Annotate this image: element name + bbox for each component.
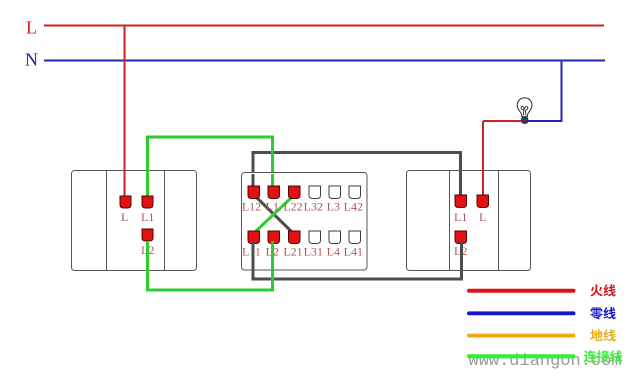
svg-text:L22: L22 (283, 200, 302, 214)
svg-text:L1: L1 (141, 210, 154, 224)
wire green: left L1 up and over to middle L1 (148, 137, 273, 198)
wire gray stub from middle L11 down (252, 238, 255, 270)
terminal L (right box) (477, 195, 489, 208)
svg-text:L12: L12 (242, 200, 261, 214)
terminal L (left box) (120, 196, 131, 208)
terminal L31 (middle box) (309, 231, 321, 244)
legend label lianjiexian (connecting wire) (584, 350, 623, 362)
terminal L2 (right box) (455, 231, 467, 244)
terminal L3 (middle box) (329, 186, 341, 199)
middle switch box SW2 (242, 173, 368, 271)
wire L bus (44, 25, 604, 27)
wire blue from lamp base to N drop (528, 61, 562, 122)
legend line connecting wire (467, 354, 576, 358)
lamp EL (517, 98, 532, 123)
legend label lingxian (neutral wire) (590, 307, 615, 319)
labels top row middle box (242, 200, 363, 214)
terminal L1 (left box) (142, 196, 153, 208)
legend line neutral wire (467, 311, 576, 315)
wire gray diagonal L12 to L21 (255, 196, 292, 232)
svg-text:L21: L21 (283, 245, 302, 259)
right switch box SW3 (407, 171, 531, 271)
terminal L11 (middle box) (248, 231, 260, 244)
svg-text:L: L (26, 18, 37, 38)
wire green stub into middle L1 (271, 174, 274, 190)
svg-text:L41: L41 (344, 245, 363, 259)
wire green overlay over left L2 label (146, 241, 149, 257)
wire green: left L2 down and over to middle L2 (148, 238, 273, 290)
svg-text:L1: L1 (266, 200, 279, 214)
terminal L42 (middle box) (349, 186, 361, 199)
terminal L12 (middle box) (248, 186, 260, 199)
svg-text:L4: L4 (327, 245, 340, 259)
svg-text:L42: L42 (344, 200, 363, 214)
legend line live wire (467, 289, 576, 293)
svg-text:L32: L32 (304, 200, 323, 214)
wire green diagonal L11 to L22 (255, 197, 292, 232)
legend line earth wire (467, 334, 576, 338)
wire gray: middle L11 down and over to right L2 (253, 240, 462, 279)
svg-text:L1: L1 (454, 210, 467, 224)
labels bottom row middle box (242, 245, 363, 259)
terminal L21 (middle box) (289, 231, 301, 244)
legend label dixian (earth wire) (590, 329, 615, 341)
svg-text:L31: L31 (304, 245, 323, 259)
wire red drop from L bus to left switch terminal L (124, 26, 126, 199)
svg-text:L: L (121, 210, 128, 224)
wire red drop from lamp to right terminal L (482, 121, 484, 197)
legend label huoxian (live wire) (590, 284, 615, 296)
wire green stub from middle L2 down (271, 238, 274, 270)
svg-text:L: L (479, 210, 486, 224)
terminal L1 (right box) (455, 195, 467, 208)
left switch box SW1 (72, 171, 197, 271)
wire gray stub into middle L12 (252, 174, 255, 190)
terminal L41 (middle box) (349, 231, 361, 244)
wire N bus (44, 60, 605, 62)
terminal L32 (middle box) (309, 186, 321, 199)
wire gray: middle L12 up and over to right L1 (253, 153, 461, 198)
wire gray overlay over middle L11 label (252, 241, 255, 257)
terminal L2 (middle box) (268, 231, 280, 244)
terminal L4 (middle box) (329, 231, 341, 244)
svg-text:L3: L3 (327, 200, 340, 214)
terminal L2 (left box) (142, 229, 153, 241)
wire green overlay over middle L2 label (271, 241, 274, 257)
wire red from lamp base left (483, 120, 521, 122)
svg-text:N: N (25, 50, 38, 70)
terminal L1 (middle box) (268, 186, 280, 199)
terminal L22 (middle box) (289, 186, 301, 199)
wire gray overlay over right L2 label (460, 241, 463, 257)
